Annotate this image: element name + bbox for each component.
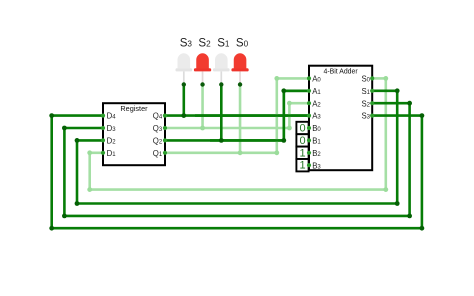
LED D6 (S2 display, on/red) bbox=[194, 53, 211, 86]
input box B2 value 1 bbox=[296, 147, 308, 160]
wire: Q4 to A3 (logic 0, dark green) bbox=[165, 114, 309, 117]
input box B0 value 0 bbox=[296, 122, 308, 135]
wire: Q3 to A2 (logic 1, light green) bbox=[165, 103, 309, 128]
svg-text:4-Bit Adder: 4-Bit Adder bbox=[324, 69, 359, 76]
junction dots light wires bbox=[87, 76, 388, 192]
wire: D3 feedback loop (S2->D3, logic 0, dark green) bbox=[64, 103, 409, 216]
wire: LED S0 lead to Q1 row (logic 1, light green) bbox=[239, 85, 242, 153]
svg-text:0: 0 bbox=[299, 135, 305, 147]
wire: Q2 to A1 (logic 0, dark green) bbox=[165, 91, 309, 141]
wire: LED S1 lead to Q2 row (logic 0) bbox=[220, 85, 223, 141]
LED D8 (S0 display, on/red) bbox=[231, 53, 248, 86]
register pin labels Q4-Q1 bbox=[153, 112, 163, 158]
svg-text:Register: Register bbox=[120, 104, 148, 113]
wire: Q2 to A1 redraw over light crossings (logic 0) bbox=[210, 91, 309, 141]
wire: Q4 to A3 redraw over light crossings (logic 0) bbox=[195, 114, 309, 117]
adder pin labels A0-A3 B0-B3 bbox=[312, 75, 321, 171]
wire: D2 feedback loop (S1->D2, logic 0, dark green) bbox=[77, 91, 397, 204]
svg-text:1: 1 bbox=[299, 160, 305, 172]
svg-text:0: 0 bbox=[299, 123, 305, 135]
4-bit adder U2 box bbox=[309, 66, 372, 171]
register pin labels D4-D1 bbox=[107, 112, 117, 158]
input box B3 value 1 bbox=[296, 159, 308, 172]
register U1 box bbox=[103, 103, 165, 165]
adder pin labels S0-S3 bbox=[361, 75, 370, 121]
wire: LED S2 lead to Q3 row (logic 1, light green) bbox=[201, 85, 204, 129]
pin node dots adder bbox=[307, 76, 374, 167]
svg-text:1: 1 bbox=[299, 147, 305, 159]
wire: D4 feedback loop (S3->D4, logic 0, dark green) bbox=[52, 116, 422, 229]
input box B1 value 0 bbox=[296, 134, 308, 147]
LED D7 (S1 display, off/white) bbox=[213, 53, 230, 86]
pin node dots register bbox=[101, 114, 167, 155]
junction dots dark wires bbox=[49, 88, 424, 230]
wire: LED S3 lead to Q4 row (logic 0) bbox=[183, 85, 186, 116]
wire: Q1 to A0 (logic 1, light green) bbox=[165, 78, 309, 152]
LED D5 (S3 display, off/white) bbox=[176, 53, 193, 86]
wire: D1 feedback loop (S0->D1, logic 1, light green) bbox=[90, 78, 386, 189]
